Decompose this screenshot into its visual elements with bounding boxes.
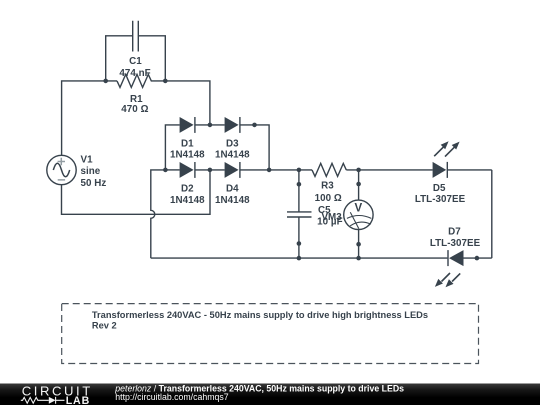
wire V1 bottom to bridge mid	[62, 170, 211, 214]
node D7 anode terminal	[475, 256, 480, 261]
node D2-D4 junction	[208, 168, 213, 173]
wire bottom bus	[151, 257, 448, 259]
wire bridge left vertical and top row to D1	[165, 125, 179, 170]
wire top row right segment down to bridge	[154, 81, 210, 125]
capacitor C1 plates	[133, 21, 139, 52]
resistor R3 labels	[315, 181, 342, 204]
node bridge output junction	[267, 168, 272, 173]
capacitor C5 labels	[317, 205, 343, 227]
wire C1 branch left	[106, 36, 133, 81]
node C5 bottom terminal	[297, 241, 302, 246]
node VM3 top terminal	[356, 182, 361, 187]
svg-text:1N4148: 1N4148	[215, 195, 250, 206]
svg-text:V: V	[354, 203, 362, 215]
svg-text:LTL-307EE: LTL-307EE	[415, 194, 466, 205]
svg-text:D7: D7	[448, 226, 461, 237]
footer logo zigzag and diode glyph	[21, 397, 65, 404]
node VM3 bus junction	[356, 256, 361, 261]
node C1 right junction	[163, 79, 168, 84]
wire between D2 and D4	[195, 169, 225, 171]
svg-text:http://circuitlab.com/cahmqs7: http://circuitlab.com/cahmqs7	[115, 392, 228, 402]
wire middle row D2 anode	[165, 169, 179, 171]
svg-text:V1: V1	[81, 154, 94, 165]
wire right edge vertical	[491, 170, 493, 258]
node C1 left junction	[103, 79, 108, 84]
node D1-D2 anode junction	[163, 168, 168, 173]
node C5 top terminal	[297, 182, 302, 187]
diode D1	[170, 117, 205, 161]
node VM3 bottom terminal	[356, 242, 361, 247]
node D1-D3 junction	[208, 123, 213, 128]
wire from R3 to D5	[346, 169, 432, 171]
capacitor C1 labels	[119, 56, 150, 79]
svg-text:Rev 2: Rev 2	[92, 320, 117, 330]
resistor R1 labels	[121, 94, 148, 115]
svg-text:LTL-307EE: LTL-307EE	[430, 238, 481, 249]
wire from D3 to bridge right vertical	[240, 125, 269, 170]
svg-text:50 Hz: 50 Hz	[81, 178, 107, 189]
svg-text:D1: D1	[181, 139, 194, 150]
resistor R3 zigzag	[312, 163, 346, 176]
voltmeter VM3	[321, 200, 373, 229]
wire stub and vertical with hop over bottom wire	[151, 170, 166, 258]
svg-text:D5: D5	[433, 183, 446, 194]
diode D4	[215, 162, 250, 206]
svg-text:474 nF: 474 nF	[119, 68, 150, 79]
footer bar	[0, 384, 540, 405]
wire left vertical and top-left segment	[62, 81, 117, 156]
svg-text:C1: C1	[129, 56, 142, 67]
wire VM3 top lead	[358, 170, 360, 200]
voltage source V1	[47, 154, 107, 188]
annotation box	[62, 304, 479, 364]
svg-text:sine: sine	[81, 166, 101, 177]
svg-text:R3: R3	[321, 181, 334, 192]
wire D5 cathode to right edge	[447, 169, 492, 171]
svg-text:1N4148: 1N4148	[215, 150, 250, 161]
wire middle row from D4 to R3	[240, 169, 312, 171]
LED D7	[430, 226, 481, 287]
resistor R1 zigzag	[117, 74, 154, 87]
svg-text:LAB: LAB	[66, 395, 90, 405]
wire C1 branch right	[138, 36, 165, 81]
node C5 top junction	[297, 168, 302, 173]
svg-text:D3: D3	[226, 139, 239, 150]
diode D2	[170, 162, 205, 206]
svg-text:1N4148: 1N4148	[170, 150, 205, 161]
svg-text:D2: D2	[181, 184, 194, 195]
svg-text:D4: D4	[226, 184, 239, 195]
LED D5	[415, 141, 466, 205]
wire between D1 and D3	[195, 124, 225, 126]
node VM3 top junction	[356, 168, 361, 173]
svg-text:VM3: VM3	[321, 212, 342, 223]
node D3 cathode terminal	[252, 123, 257, 128]
wire C5 branch top	[298, 170, 300, 212]
wire VM3 bottom lead	[358, 230, 360, 259]
wire C5 branch bottom	[298, 217, 300, 258]
wire D7 anode segment	[464, 257, 492, 259]
svg-text:1N4148: 1N4148	[170, 195, 205, 206]
svg-text:100 Ω: 100 Ω	[315, 193, 342, 204]
node C5 bus junction	[297, 256, 302, 261]
svg-text:470 Ω: 470 Ω	[121, 104, 148, 115]
diode D3	[215, 117, 250, 161]
capacitor C5 plates	[287, 212, 312, 217]
svg-text:Transformerless 240VAC - 50Hz: Transformerless 240VAC - 50Hz mains supp…	[92, 310, 428, 320]
